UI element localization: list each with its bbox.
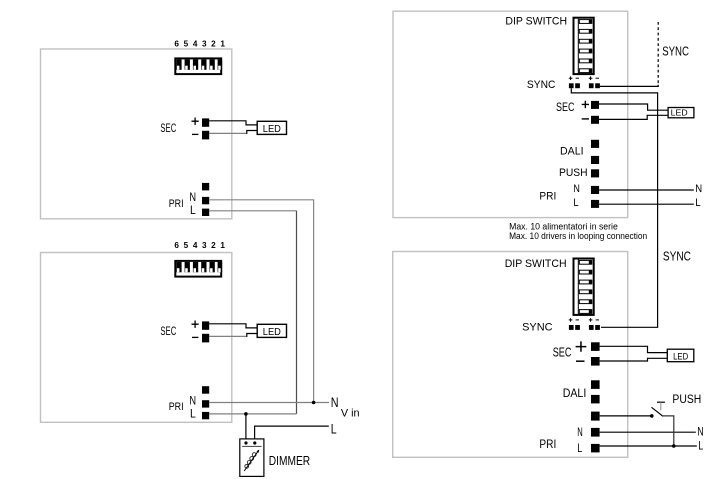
svg-text:L: L	[695, 197, 700, 209]
svg-text:L: L	[698, 441, 703, 453]
svg-text:DIP SWITCH: DIP SWITCH	[505, 258, 567, 270]
svg-text:SYNC: SYNC	[522, 321, 552, 333]
svg-text:PRI: PRI	[539, 190, 556, 202]
svg-text:L: L	[577, 443, 582, 455]
svg-text:N: N	[331, 395, 339, 410]
svg-text:L: L	[573, 197, 578, 209]
svg-text:L: L	[331, 422, 337, 437]
svg-text:SYNC: SYNC	[662, 44, 689, 59]
svg-text:PUSH: PUSH	[559, 167, 588, 179]
svg-text:N: N	[695, 183, 702, 195]
svg-text:LED: LED	[671, 108, 688, 118]
svg-text:N: N	[577, 427, 583, 439]
svg-text:Max. 10 alimentatori in serie: Max. 10 alimentatori in serie	[509, 221, 618, 231]
svg-text:DALI: DALI	[560, 145, 584, 157]
svg-text:SYNC: SYNC	[527, 79, 556, 91]
svg-text:N: N	[573, 183, 580, 195]
svg-text:SEC: SEC	[553, 346, 572, 360]
svg-text:SEC: SEC	[556, 101, 575, 114]
svg-text:V in: V in	[341, 408, 360, 420]
svg-text:N: N	[697, 427, 703, 439]
svg-text:Max. 10 drivers in looping con: Max. 10 drivers in looping connection	[509, 231, 647, 241]
svg-text:SYNC: SYNC	[663, 250, 691, 264]
svg-text:PUSH: PUSH	[672, 394, 701, 406]
svg-text:DALI: DALI	[563, 386, 587, 400]
svg-text:PRI: PRI	[539, 439, 556, 451]
svg-text:DIP SWITCH: DIP SWITCH	[505, 15, 567, 27]
svg-text:LED: LED	[673, 351, 688, 362]
svg-text:DIMMER: DIMMER	[269, 453, 310, 468]
